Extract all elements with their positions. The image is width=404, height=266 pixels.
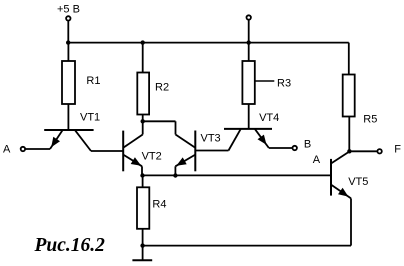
svg-text:VT4: VT4 bbox=[259, 112, 279, 124]
wire A to VT1 emitter bbox=[26, 148, 50, 150]
svg-text:VT3: VT3 bbox=[201, 133, 221, 145]
wire VT1 collector to VT2 base bbox=[91, 150, 123, 152]
transistor VT1 bbox=[44, 130, 93, 151]
resistor R3 bbox=[242, 61, 254, 104]
node collectors VT2/VT3 bbox=[141, 119, 145, 123]
node R4 bottom bbox=[140, 243, 144, 247]
wire R2 bottom lead bbox=[142, 115, 144, 122]
transistor VT5 bbox=[331, 152, 351, 246]
wire R3 bottom lead bbox=[248, 104, 250, 129]
node F bbox=[347, 149, 351, 153]
terminal A bbox=[21, 147, 25, 151]
transistor VT2 bbox=[123, 121, 143, 175]
resistor R5 bbox=[343, 75, 355, 117]
ground bbox=[132, 246, 152, 261]
wire R5 bottom lead bbox=[348, 117, 350, 152]
svg-text:R3: R3 bbox=[277, 77, 291, 89]
svg-text:B: B bbox=[304, 138, 311, 150]
wire emitter bus (VT2/VT3 emitters to VT5 base) bbox=[143, 174, 332, 176]
wire R3 top lead bbox=[248, 43, 250, 61]
wire top rail bbox=[68, 42, 349, 44]
wire bottom rail bbox=[143, 245, 351, 247]
svg-text:A: A bbox=[313, 154, 321, 166]
wire F output bbox=[349, 150, 377, 152]
svg-text:VT2: VT2 bbox=[142, 151, 162, 163]
svg-text:VT1: VT1 bbox=[80, 112, 100, 124]
transistor VT3 bbox=[175, 121, 195, 175]
wire R5 top lead bbox=[348, 43, 350, 75]
terminal B bbox=[293, 146, 297, 150]
node VT2 emitter / R4 bbox=[140, 173, 144, 177]
terminal top-2 bbox=[247, 15, 251, 19]
terminal F bbox=[377, 149, 381, 153]
svg-text:R4: R4 bbox=[152, 199, 166, 211]
svg-text:+5 В: +5 В bbox=[57, 4, 80, 16]
node rail R3 bbox=[247, 40, 251, 44]
node VT3 emitter bbox=[173, 173, 177, 177]
svg-text:R2: R2 bbox=[155, 82, 169, 94]
wire R1 bottom lead bbox=[67, 104, 69, 130]
wire R2 top lead bbox=[142, 43, 144, 73]
transistor VT4 bbox=[224, 129, 272, 151]
wire terminal-2 stub bbox=[248, 20, 250, 42]
wire R4 bottom lead bbox=[142, 229, 144, 246]
resistor R2 bbox=[137, 73, 149, 115]
wire R4 top lead bbox=[142, 176, 144, 188]
wire VT3 base to VT4 collector bbox=[195, 150, 228, 152]
wire VT4 emitter to B bbox=[269, 147, 292, 149]
svg-text:R1: R1 bbox=[86, 75, 100, 87]
svg-text:VT5: VT5 bbox=[348, 176, 368, 188]
svg-text:Рис.16.2: Рис.16.2 bbox=[34, 235, 106, 256]
resistor R4 bbox=[137, 187, 149, 229]
svg-text:F: F bbox=[394, 144, 401, 156]
node rail R2 bbox=[141, 40, 145, 44]
wire collector bus under R2 bbox=[143, 120, 176, 122]
svg-text:R5: R5 bbox=[363, 114, 377, 126]
svg-text:A: A bbox=[3, 144, 11, 156]
wire +5V stub bbox=[67, 21, 69, 42]
R3 label pointer line bbox=[255, 80, 274, 82]
wire R1 top lead bbox=[67, 43, 69, 61]
resistor R1 bbox=[62, 61, 75, 104]
+5V terminal bbox=[66, 16, 70, 20]
node +5V rail left bbox=[66, 40, 70, 44]
